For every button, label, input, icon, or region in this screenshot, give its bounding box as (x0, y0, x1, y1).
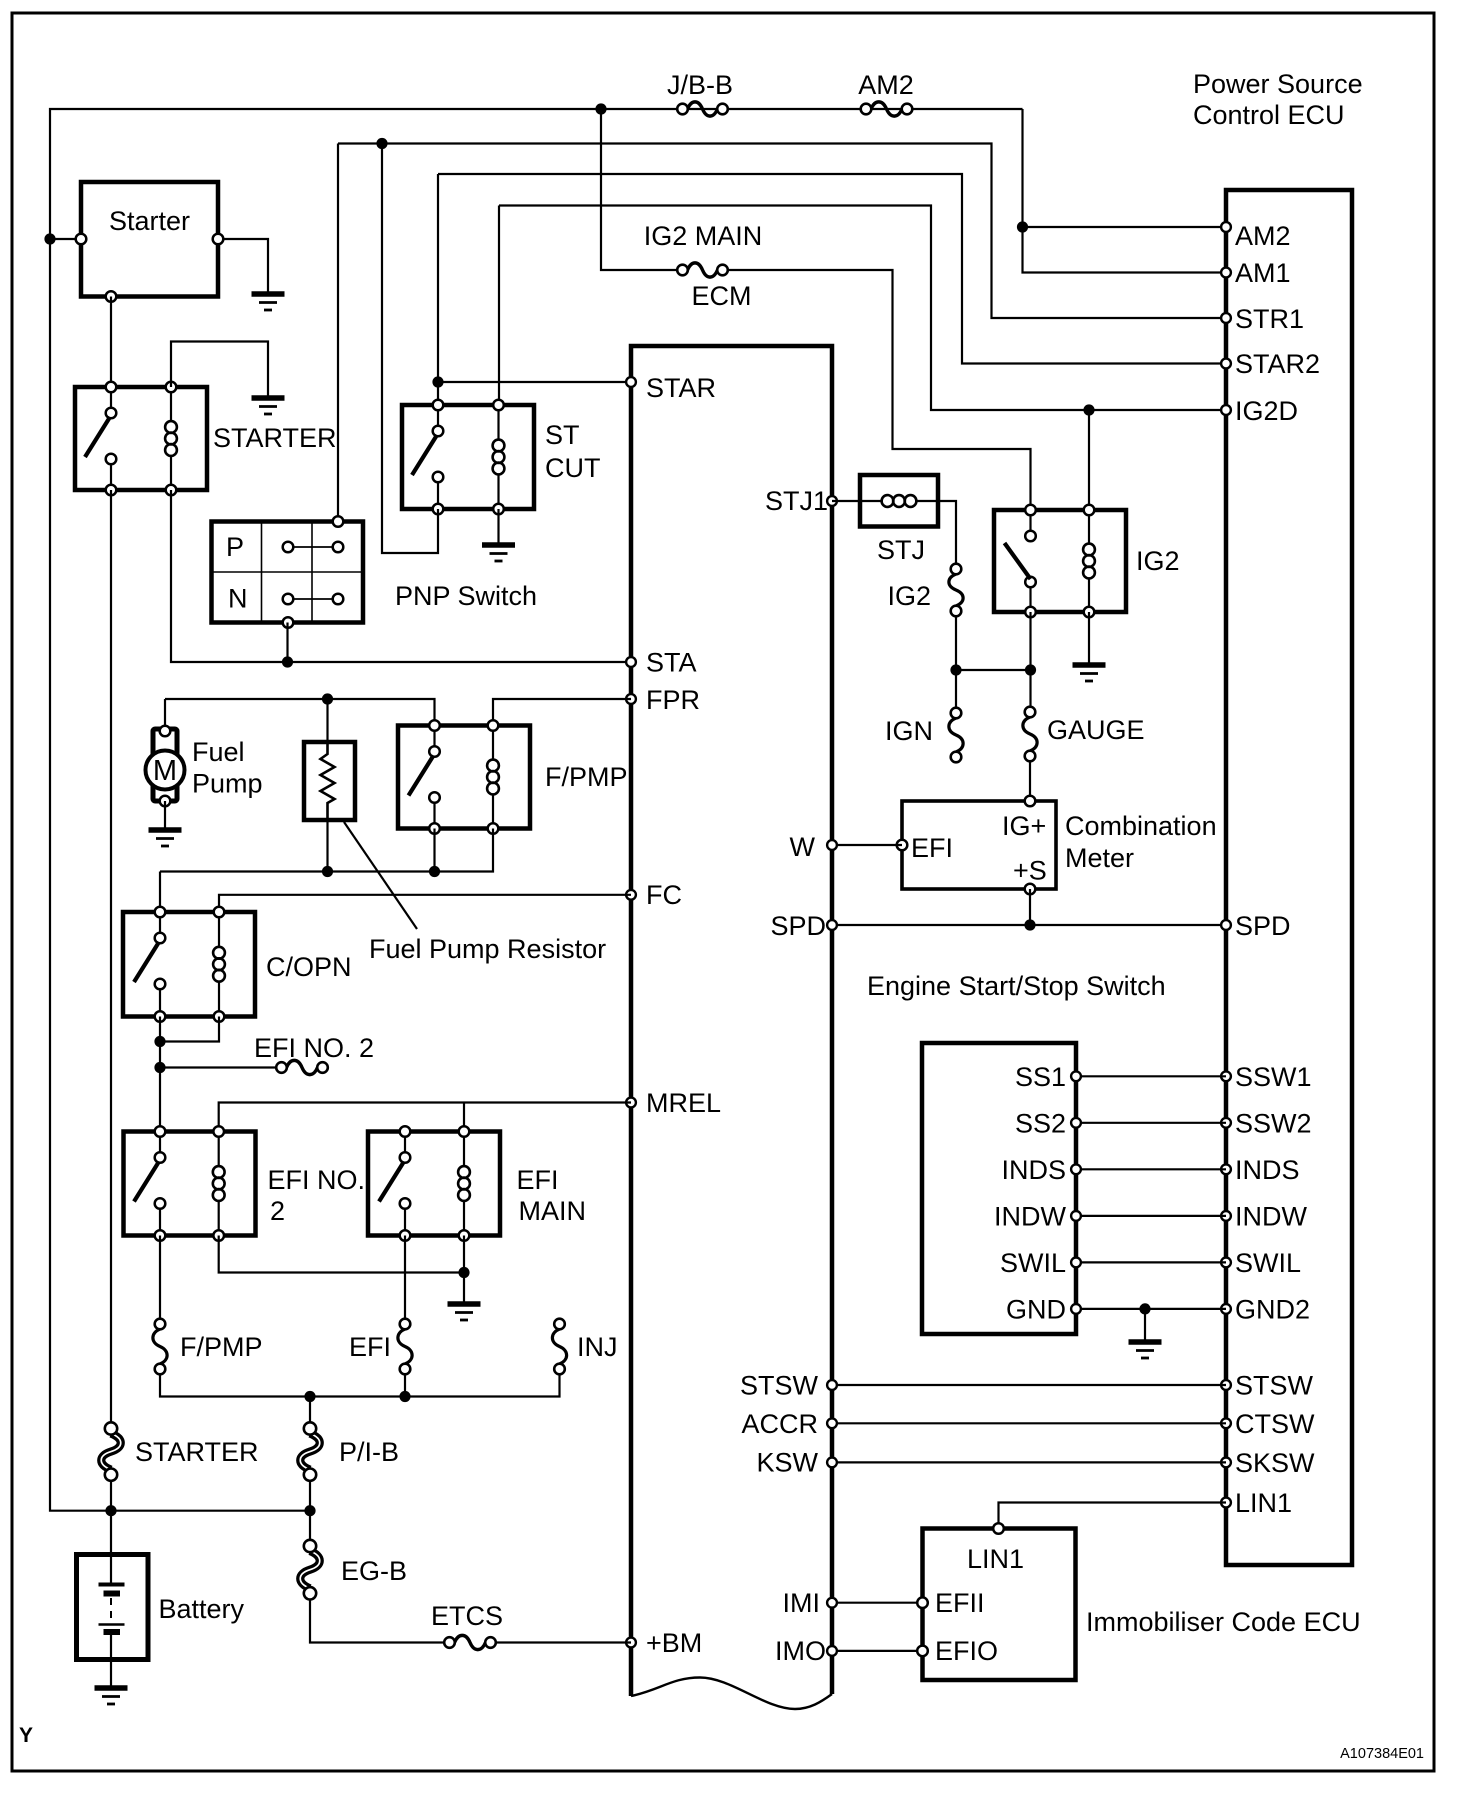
svg-text:Fuel Pump Resistor: Fuel Pump Resistor (369, 934, 606, 964)
fusible link EG-B (300, 1540, 320, 1600)
relay F/PMP switch (409, 726, 440, 829)
svg-text:Immobiliser Code ECU: Immobiliser Code ECU (1086, 1607, 1361, 1637)
svg-text:Control ECU: Control ECU (1193, 100, 1345, 130)
fuse F/PMP (fusible) (153, 1319, 167, 1375)
wire C/OPN bottoms join (160, 1017, 219, 1042)
wire to AM2 terminal (1023, 226, 1227, 228)
fuse IG2 MAIN (677, 263, 728, 277)
wire INDS to ECU (1076, 1168, 1226, 1170)
svg-text:IG2 MAIN: IG2 MAIN (644, 221, 763, 251)
wire F/PMP switch bottom stub (433, 829, 435, 872)
wire EFI MAIN switch to EFI fuse (404, 1236, 406, 1318)
wire IG2 relay switch bottom to node (1029, 612, 1031, 670)
svg-text:STJ1: STJ1 (765, 486, 828, 516)
junction dot at x=382 on STR1 wire (376, 138, 387, 149)
svg-text:STSW: STSW (740, 1371, 819, 1401)
wire STJ to IG2 fuse (938, 501, 956, 563)
terminal ECU STSW (1221, 1380, 1231, 1390)
svg-text:PNP Switch: PNP Switch (395, 581, 537, 611)
wire KSW (ECM to ECU) (832, 1461, 1226, 1463)
terminal meter IG+ (1025, 796, 1036, 807)
relay F/PMP coil (487, 726, 499, 829)
junction dot EFI fuse at rail (399, 1391, 410, 1402)
relay C/OPN box (123, 912, 255, 1017)
svg-text:FPR: FPR (646, 685, 700, 715)
relay F/PMP box (398, 726, 530, 829)
fusible link STARTER (101, 1422, 121, 1481)
svg-text:Meter: Meter (1065, 843, 1134, 873)
svg-text:Combination: Combination (1065, 811, 1217, 841)
wire INDW to ECU (1076, 1215, 1226, 1217)
component Engine Start/Stop Switch box (922, 1043, 1076, 1334)
terminal ECM IMO (827, 1646, 837, 1656)
svg-text:CTSW: CTSW (1235, 1409, 1315, 1439)
wire STR1 branch down to PNP switch (337, 144, 339, 522)
relay STARTER box (75, 387, 207, 490)
relay STARTER terminals (106, 382, 177, 496)
svg-text:AM1: AM1 (1235, 258, 1291, 288)
wire GND to ECU (1076, 1308, 1226, 1310)
svg-text:Pump: Pump (192, 769, 263, 799)
relay IG2 terminals (1025, 505, 1094, 618)
junction dot EFI coils ground join (458, 1267, 469, 1278)
relay EFI NO. 2 switch (134, 1132, 165, 1236)
wire IMO to EFIO (832, 1650, 923, 1652)
svg-text:MAIN: MAIN (519, 1196, 587, 1226)
svg-text:STJ: STJ (877, 535, 925, 565)
relay EFI MAIN switch (379, 1132, 410, 1236)
wire C/OPN switch bottom down to EFI NO.2 relay (159, 1017, 161, 1132)
svg-text:GAUGE: GAUGE (1047, 715, 1145, 745)
fuse INJ (552, 1319, 566, 1375)
terminal ECU SSW2 (1221, 1118, 1231, 1128)
svg-text:IGN: IGN (885, 716, 933, 746)
svg-text:EFI: EFI (517, 1165, 559, 1195)
terminal ECM IMI (827, 1598, 837, 1608)
wire EFI NO.2 coil bottom to ground rail (219, 1236, 464, 1273)
relay C/OPN switch (134, 912, 165, 1017)
Power Source Control ECU box (1226, 190, 1352, 1565)
PNP switch inner grid (212, 522, 364, 623)
STJ coil (horizontal) (860, 495, 938, 507)
wire GND to ground (1144, 1309, 1146, 1342)
svg-text:LIN1: LIN1 (967, 1544, 1024, 1574)
terminal PNP bottom (283, 617, 294, 628)
svg-text:2: 2 (270, 1196, 285, 1226)
svg-text:KSW: KSW (756, 1448, 818, 1478)
wire to IGN fuse (955, 670, 957, 707)
fusible link P/I-B (300, 1422, 320, 1481)
terminal switch SS1 (1071, 1071, 1081, 1081)
svg-text:IMO: IMO (775, 1636, 826, 1666)
wire battery to ground (110, 1660, 112, 1689)
wire ST CUT coil to ground (497, 509, 499, 545)
PNP P row contacts (283, 542, 344, 553)
svg-text:W: W (790, 832, 816, 862)
wire B+ to Starter (50, 238, 81, 240)
wire IG2 MAIN branch from top feed (601, 109, 676, 270)
wire GAUGE node to fuse (1029, 670, 1031, 706)
junction dot PNP to STA (282, 656, 293, 667)
component Fuel Pump Resistor box (304, 742, 355, 820)
svg-text:SWIL: SWIL (1235, 1248, 1301, 1278)
terminal ECM KSW (827, 1458, 837, 1468)
terminal ECU IG2D (1221, 405, 1231, 415)
terminal immobiliser LIN1 (993, 1523, 1004, 1534)
svg-text:FC: FC (646, 880, 682, 910)
svg-text:A107384E01: A107384E01 (1340, 1746, 1424, 1762)
wire EFI NO.2 switch to F/PMP fuse (159, 1236, 161, 1318)
wire FC rail y=871.5 (160, 829, 493, 872)
wire EG-B to ETCS fuse (310, 1600, 443, 1643)
wire LIN1 from ECU to immobiliser (999, 1503, 1227, 1529)
relay STARTER switch (85, 387, 116, 490)
svg-text:IG2: IG2 (887, 581, 931, 611)
wire ETCS to ECM +BM (497, 1641, 631, 1643)
svg-text:J/B-B: J/B-B (667, 70, 733, 100)
wire W (ECM to meter) (832, 844, 902, 846)
terminal meter +S (1025, 884, 1036, 895)
wire STJ1 to STJ relay (832, 500, 860, 502)
svg-text:IG2: IG2 (1136, 546, 1180, 576)
junction dot at GAUGE node (1025, 664, 1036, 675)
terminal ECU INDS (1221, 1164, 1231, 1174)
svg-text:IG+: IG+ (1002, 811, 1046, 841)
wire Starter to ground (218, 239, 268, 294)
svg-text:SWIL: SWIL (1000, 1248, 1066, 1278)
terminal ECM ACCR (827, 1418, 837, 1428)
svg-text:ACCR: ACCR (741, 1409, 818, 1439)
junction dot GND ground branch (1139, 1303, 1150, 1314)
svg-text:F/PMP: F/PMP (180, 1332, 263, 1362)
relay IG2 box (994, 510, 1126, 612)
wire IG2D branch to IG2 relay coil (1088, 410, 1090, 510)
terminal ECU STAR2 (1221, 359, 1231, 369)
junction dot resistor bottom (322, 866, 333, 877)
ground (fuel pump) (149, 830, 182, 846)
svg-text:+S: +S (1013, 856, 1047, 886)
terminal ECU CTSW (1221, 1418, 1231, 1428)
ground (IG2 relay) (1073, 665, 1106, 681)
relay EFI NO. 2 box (124, 1132, 256, 1236)
wire ST CUT coil drop (498, 206, 500, 406)
svg-text:C/OPN: C/OPN (266, 952, 352, 982)
wire fuel pump to ground (164, 801, 166, 830)
svg-text:M: M (153, 755, 177, 787)
terminal ECU STR1 (1221, 313, 1231, 323)
wire resistor top lead (326, 699, 328, 742)
terminal ECU INDW (1221, 1211, 1231, 1221)
wire STR1 net (from x=338 via y=143) (338, 144, 1226, 319)
junction dot IG2 coil branch on IG2D wire (1083, 404, 1094, 415)
wire GAUGE fuse to combination meter IG+ (1029, 762, 1031, 801)
terminal Starter bottom (106, 291, 117, 302)
relay EFI NO. 2 terminals (155, 1126, 224, 1241)
wire IG2 fuse to junction (955, 617, 957, 670)
svg-text:SSW1: SSW1 (1235, 1062, 1312, 1092)
relay STARTER coil (165, 387, 177, 490)
svg-text:P: P (226, 532, 244, 562)
fuse ETCS (444, 1635, 496, 1649)
svg-text:IMI: IMI (783, 1588, 821, 1618)
junction dot AM2 branch (1017, 221, 1028, 232)
wire EFI NO. 2 fuse branch (160, 1066, 275, 1068)
terminal meter EFI (897, 840, 908, 851)
svg-text:LIN1: LIN1 (1235, 1488, 1292, 1518)
terminal ECU SPD (1221, 920, 1231, 930)
svg-text:ETCS: ETCS (431, 1601, 503, 1631)
PNP N row contacts (283, 594, 344, 605)
fuse IG2 (949, 564, 963, 617)
terminal ECM +BM (626, 1638, 636, 1648)
wire P/I-B drop (309, 1397, 311, 1423)
relay C/OPN coil (213, 912, 225, 1017)
wire SS1 to ECU (1076, 1075, 1226, 1077)
terminal ECM SPD (827, 920, 837, 930)
svg-text:STA: STA (646, 648, 697, 678)
fuse IGN (stub) (949, 708, 963, 763)
svg-text:F/PMP: F/PMP (545, 762, 628, 792)
terminal Starter left (76, 234, 87, 245)
relay ST CUT terminals (433, 400, 504, 515)
wire IG2D net (ST CUT coil feed, y=205.5) (499, 206, 1226, 411)
wire STAR2 net (ST CUT switch feed, y=174) (438, 174, 1226, 364)
battery internal plates (99, 1555, 125, 1660)
fuse EFI (398, 1319, 412, 1375)
wire EFI fuse to rail (404, 1375, 406, 1396)
terminal ECU SKSW (1221, 1458, 1231, 1468)
svg-text:ST: ST (545, 420, 580, 450)
resistor zigzag (321, 742, 335, 820)
junction dot battery rail at x=111 (105, 1505, 116, 1516)
wire cross join IG2-GAUGE nodes (956, 669, 1031, 671)
component PNP Switch box (212, 522, 364, 623)
svg-text:SPD: SPD (1235, 911, 1291, 941)
relay IG2 switch (1005, 510, 1036, 612)
wire FPR right segment (relay coil to ECM FPR) (493, 699, 631, 726)
terminal switch INDS (1071, 1164, 1081, 1174)
wire IMI to EFII (832, 1602, 923, 1604)
terminal ECU GND2 (1221, 1304, 1231, 1314)
terminal ECM FC (626, 890, 636, 900)
wire Starter to STARTER relay (110, 297, 112, 388)
leader line Fuel Pump Resistor (344, 822, 417, 929)
svg-text:EFI NO.: EFI NO. (268, 1165, 366, 1195)
wire STARTER relay coil to ground (171, 342, 268, 399)
terminal ECM STJ1 (827, 496, 837, 506)
wire IG2 relay coil to ground (1088, 612, 1090, 665)
terminal ECM STSW (827, 1380, 837, 1390)
svg-text:N: N (228, 584, 248, 614)
svg-text:STR1: STR1 (1235, 304, 1304, 334)
svg-text:SS1: SS1 (1015, 1062, 1066, 1092)
wire from IG2 MAIN fuse to IG2 relay switch (729, 270, 1031, 510)
wire MREL net (219, 1103, 631, 1132)
svg-text:+BM: +BM (646, 1628, 702, 1658)
wire MREL branch to EFI MAIN coil (463, 1103, 465, 1132)
relay EFI MAIN coil (458, 1132, 470, 1236)
fuse AM2 (861, 102, 913, 116)
wire P/I-B link to rail (309, 1481, 311, 1511)
relay EFI NO. 2 coil (213, 1132, 225, 1236)
svg-text:P/I-B: P/I-B (339, 1437, 399, 1467)
component Combination Meter box (902, 801, 1056, 889)
junction dot resistor top (322, 693, 333, 704)
fuse GAUGE (1023, 707, 1037, 762)
junction dot battery rail at x=310 (304, 1505, 315, 1516)
svg-text:SKSW: SKSW (1235, 1448, 1315, 1478)
wire STAR to ECM (438, 381, 631, 383)
svg-text:Battery: Battery (159, 1594, 245, 1624)
wire SPD (ECM to ECU) (832, 924, 1226, 926)
component Immobiliser Code ECU box (923, 1529, 1076, 1681)
junction dot P/I-B branch (304, 1391, 315, 1402)
relay F/PMP terminals (429, 720, 498, 834)
wire SS2 to ECU (1076, 1122, 1226, 1124)
ground (switch GND) (1129, 1342, 1162, 1358)
junction dot EFI NO.2 fuse branch (154, 1062, 165, 1073)
fuse J/B-B (677, 102, 728, 116)
svg-text:EG-B: EG-B (341, 1556, 407, 1586)
wire PNP bottom to STA wire (286, 623, 288, 663)
terminal Starter right (213, 234, 224, 245)
terminal immobiliser EFII (917, 1597, 928, 1608)
svg-text:STAR: STAR (646, 373, 716, 403)
ground (EFI MAIN coil) (448, 1304, 481, 1320)
terminal switch SS2 (1071, 1118, 1081, 1128)
svg-text:INDW: INDW (1235, 1202, 1307, 1232)
ground (starter motor) (252, 294, 285, 310)
svg-text:EFI NO. 2: EFI NO. 2 (254, 1033, 374, 1063)
junction dot at J/B-B branch (595, 103, 606, 114)
svg-text:Power Source: Power Source (1193, 69, 1363, 99)
terminal ECU AM2 (1221, 222, 1231, 232)
wire resistor bottom lead (326, 820, 328, 872)
wire AM2 feed down to ECU AM2/AM1 (1023, 109, 1227, 273)
junction dot C/OPN join (154, 1036, 165, 1047)
wire ST CUT switch bottom loop to x=382 (382, 144, 438, 554)
svg-text:AM2: AM2 (858, 70, 914, 100)
terminal ECM FPR (626, 694, 636, 704)
wire meter +S to SPD wire (1029, 889, 1031, 925)
component Starter box (81, 182, 218, 297)
wire EFI MAIN coil bottom to ground (463, 1236, 465, 1305)
svg-text:SPD: SPD (770, 911, 826, 941)
svg-text:IG2D: IG2D (1235, 396, 1298, 426)
wire STA net (STARTER coil / PNP N / ECM STA) (171, 490, 631, 662)
svg-text:INDS: INDS (1001, 1155, 1066, 1185)
svg-text:INDW: INDW (994, 1202, 1066, 1232)
wire bottom distribution rail y=1396.5 (160, 1375, 560, 1396)
svg-text:INJ: INJ (577, 1332, 618, 1362)
ECM torn-edge curve (631, 1678, 832, 1710)
relay EFI MAIN terminals (400, 1126, 470, 1241)
relay ST CUT switch (412, 405, 443, 509)
terminal ECM STA (626, 657, 636, 667)
wire SWIL to ECU (1076, 1261, 1226, 1263)
svg-text:Y: Y (19, 1724, 33, 1747)
wire STARTER relay switch down to fusible link (110, 490, 112, 1422)
svg-text:GND: GND (1006, 1295, 1066, 1325)
component STJ relay box (860, 475, 938, 527)
relay EFI MAIN box (368, 1132, 500, 1236)
svg-text:EFI: EFI (349, 1332, 391, 1362)
terminal ECM STAR (626, 377, 636, 387)
svg-text:ECM: ECM (692, 281, 752, 311)
wire ACCR (ECM to ECU) (832, 1422, 1226, 1424)
svg-text:SSW2: SSW2 (1235, 1109, 1312, 1139)
terminal immobiliser EFIO (917, 1646, 928, 1657)
wire ST CUT switch drop and STAR branch (437, 174, 439, 405)
junction dot B+ at Starter (44, 233, 55, 244)
wire STSW (ECM to ECU) (832, 1384, 1226, 1386)
terminal switch SWIL (1071, 1258, 1081, 1268)
fuse EFI NO. 2 (276, 1060, 328, 1074)
wire FC to ECM (C/OPN coil) (219, 895, 631, 912)
ground (battery) (95, 1688, 128, 1704)
wire fuel pump feed down (164, 699, 166, 731)
terminal switch GND (1071, 1304, 1081, 1314)
wire FC rail drop to C/OPN switch (159, 872, 161, 913)
svg-text:AM2: AM2 (1235, 221, 1291, 251)
relay C/OPN terminals (155, 907, 225, 1022)
relay IG2 coil (1083, 510, 1095, 612)
svg-text:EFII: EFII (935, 1588, 985, 1618)
terminal ECU SWIL (1221, 1258, 1231, 1268)
ECM box (open-bottom) (631, 346, 832, 1696)
ground (ST CUT) (482, 545, 515, 561)
relay ST CUT coil (493, 405, 505, 509)
svg-text:STAR2: STAR2 (1235, 349, 1320, 379)
wire STARTER link to battery rail (110, 1481, 112, 1555)
svg-text:EFI: EFI (911, 833, 953, 863)
ground (STARTER relay coil) (252, 398, 285, 414)
svg-text:STARTER: STARTER (213, 423, 337, 453)
wire FPR left segment (pump/resistor/switch feed) (165, 699, 435, 726)
svg-text:Engine Start/Stop Switch: Engine Start/Stop Switch (867, 971, 1166, 1001)
wire EG-B drop (309, 1511, 311, 1540)
terminal ECU SSW1 (1221, 1071, 1231, 1081)
component Battery box (77, 1555, 149, 1660)
svg-text:Fuel: Fuel (192, 737, 245, 767)
junction dot STAR branch (432, 376, 443, 387)
terminal ECU AM1 (1221, 268, 1231, 278)
svg-text:STSW: STSW (1235, 1371, 1314, 1401)
terminal switch INDW (1071, 1211, 1081, 1221)
relay ST CUT box (402, 405, 534, 509)
terminal ECM MREL (626, 1098, 636, 1108)
svg-text:GND2: GND2 (1235, 1295, 1310, 1325)
svg-text:STARTER: STARTER (135, 1437, 259, 1467)
svg-text:Starter: Starter (109, 206, 190, 236)
terminal ECU LIN1 (1221, 1498, 1231, 1508)
terminal ECM W (827, 840, 837, 850)
wire battery B+ feed (top horizontal y=109 and left drop x=50) (50, 109, 1023, 1511)
junction dot F/PMP switch bottom (429, 866, 440, 877)
terminal PNP top (333, 516, 344, 527)
svg-text:EFIO: EFIO (935, 1636, 998, 1666)
junction dot SPD at meter (1024, 919, 1035, 930)
svg-text:INDS: INDS (1235, 1155, 1300, 1185)
svg-text:SS2: SS2 (1015, 1109, 1066, 1139)
component Fuel Pump motor (146, 726, 185, 807)
junction dot at IG2/IGN node (950, 664, 961, 675)
svg-text:CUT: CUT (545, 453, 601, 483)
svg-text:MREL: MREL (646, 1088, 721, 1118)
